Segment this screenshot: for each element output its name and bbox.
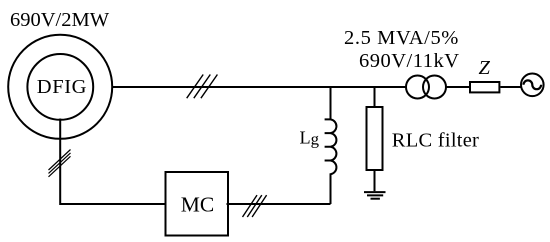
- transformer T1 primary circle: [406, 76, 429, 99]
- three-phase slash marks on stator wire: [187, 75, 218, 99]
- wire MC output to Lg: [227, 203, 331, 205]
- svg-text:2.5 MVA/5%: 2.5 MVA/5%: [344, 27, 459, 49]
- RLC filter impedance box: [367, 107, 383, 170]
- wire RLC branch upper: [374, 88, 376, 106]
- svg-text:Lg: Lg: [300, 128, 320, 149]
- wire rotor (DFIG down and right to MC): [60, 119, 165, 205]
- impedance Z box: [470, 82, 499, 92]
- svg-text:RLC filter: RLC filter: [392, 130, 479, 152]
- svg-text:690V/11kV: 690V/11kV: [359, 50, 460, 72]
- svg-text:690V/2MW: 690V/2MW: [10, 9, 110, 31]
- wire Z to grid: [500, 86, 521, 88]
- converter MC box: [166, 172, 229, 236]
- grid source G1 sine wave: [524, 80, 542, 89]
- transformer T1 secondary circle: [423, 76, 446, 99]
- generator U1 DFIG outer circle: [8, 35, 112, 139]
- inductor Lg: [325, 88, 337, 204]
- wire transformer to Z: [446, 86, 469, 88]
- svg-text:MC: MC: [181, 193, 214, 217]
- three-phase slash marks on rotor wire: [49, 150, 71, 177]
- wire RLC branch lower: [374, 171, 376, 191]
- generator U1 DFIG inner circle: [27, 54, 93, 120]
- grid source G1 circle: [521, 74, 544, 97]
- three-phase slash marks on MC output wire: [243, 195, 267, 217]
- ground: [364, 192, 386, 199]
- svg-text:DFIG: DFIG: [37, 76, 87, 98]
- wire stator bus (DFIG to transformer): [113, 86, 406, 88]
- svg-text:Z: Z: [479, 57, 491, 79]
